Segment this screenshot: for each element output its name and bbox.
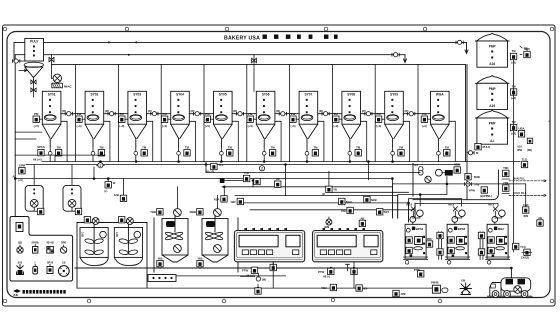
level switch left of SY05 bbox=[204, 112, 210, 128]
svg-text:SPB: SPB bbox=[61, 241, 66, 245]
storage silo 2 bbox=[475, 76, 509, 110]
right mid circle lower bbox=[425, 176, 431, 182]
silo 2 instrument bbox=[510, 85, 516, 101]
svg-text:(R): (R) bbox=[191, 109, 195, 113]
svg-text:SY03: SY03 bbox=[133, 93, 141, 97]
wire side drop SY06 bbox=[275, 121, 281, 161]
junction dot 420.2,194.6 bbox=[419, 194, 421, 196]
bottom instrument PTW1 bbox=[242, 267, 258, 277]
wire instrument to bin SY09 bbox=[382, 118, 385, 120]
discharge instrument below SY08 bbox=[355, 145, 361, 156]
mixer room box CD risers bbox=[154, 218, 238, 272]
instrument TLD right bbox=[521, 157, 527, 167]
blower motor bbox=[52, 83, 73, 88]
svg-text:N24: N24 bbox=[384, 210, 390, 214]
svg-text:YPW: YPW bbox=[469, 189, 476, 193]
valve on L1 right end bbox=[456, 40, 463, 44]
junction dot 307,161.5 bbox=[306, 161, 308, 163]
aerator fan symbol bbox=[460, 279, 471, 295]
svg-text:QB: QB bbox=[18, 241, 22, 245]
svg-text:SPAS: SPAS bbox=[37, 145, 45, 149]
instrument CnD right column bbox=[523, 203, 529, 218]
svg-text:A16: A16 bbox=[489, 62, 495, 66]
rotary valve after SY02 bbox=[105, 109, 115, 116]
svg-text:MBB: MBB bbox=[190, 210, 196, 214]
title block 3 bbox=[286, 35, 291, 39]
middle cluster: instrument XB bbox=[275, 177, 281, 188]
wire outlet down SY08 bbox=[349, 146, 351, 162]
svg-text:1AB: 1AB bbox=[81, 232, 84, 237]
day tank 1B08 instrument bbox=[75, 208, 81, 214]
divider wire after SY07 bbox=[331, 64, 333, 161]
wire bottom bus lower bbox=[77, 287, 433, 289]
junction dot 408.5,202.9 bbox=[408, 202, 410, 204]
wire outlet down SY04 bbox=[178, 146, 180, 162]
svg-text:HB.8: HB.8 bbox=[488, 203, 494, 207]
svg-text:MAN FILL: MAN FILL bbox=[513, 177, 526, 181]
svg-text:NGV: NGV bbox=[346, 200, 352, 204]
bottom instrument BN bbox=[356, 285, 367, 291]
svg-text:(+): (+) bbox=[104, 189, 107, 193]
wire bus y186 bbox=[222, 186, 392, 188]
svg-text:(M): (M) bbox=[262, 277, 266, 281]
svg-text:TM: TM bbox=[142, 145, 147, 149]
wire outlet down SY05 bbox=[220, 146, 222, 162]
wire instrument to bin SY08 bbox=[339, 118, 342, 120]
title block 5 bbox=[309, 35, 313, 39]
svg-text:(+0): (+0) bbox=[18, 178, 23, 182]
rotary valve after SY04 bbox=[191, 109, 201, 116]
svg-text:(+0): (+0) bbox=[34, 124, 39, 128]
bottom wire jog bbox=[240, 274, 258, 277]
wire riser x368 bbox=[367, 162, 369, 180]
feeder side arrow bbox=[19, 69, 27, 71]
svg-text:(2)(PPBL): (2)(PPBL) bbox=[480, 194, 492, 198]
svg-text:SP20: SP20 bbox=[47, 261, 54, 265]
junction dot 108.2,178.6 bbox=[107, 178, 109, 180]
UBA cluster square b bbox=[527, 138, 532, 143]
storage silo 3 bbox=[475, 110, 509, 144]
svg-text:Z2R: Z2R bbox=[503, 181, 508, 185]
svg-text:PW4B: PW4B bbox=[431, 281, 439, 285]
day tank risers bbox=[34, 165, 72, 186]
panel row2 hoist symbol bbox=[17, 261, 24, 275]
level switch left of SY06 bbox=[247, 112, 253, 128]
wire riser x253 bbox=[252, 180, 254, 187]
svg-text:(+0): (+0) bbox=[162, 124, 167, 128]
svg-text:PTW: PTW bbox=[242, 269, 249, 273]
silo 3 instrument bbox=[510, 120, 516, 136]
junction dot 446.9,183.9 bbox=[446, 183, 448, 185]
discharge instrument below WGA bbox=[444, 145, 450, 156]
divider wire after SY08 bbox=[374, 64, 376, 161]
screw top a bbox=[125, 27, 129, 31]
operator control panel bbox=[10, 217, 73, 282]
wire instrument to bin SY02 bbox=[82, 118, 85, 120]
right mid instrument XBB bbox=[454, 163, 460, 174]
svg-text:SY02: SY02 bbox=[90, 93, 98, 97]
junction dot 392.6,161.5 bbox=[392, 161, 394, 163]
svg-text:PM: PM bbox=[205, 112, 210, 116]
screw top-right bbox=[550, 27, 554, 31]
svg-text:T6D: T6D bbox=[503, 166, 508, 170]
screw bottom a bbox=[87, 299, 91, 303]
wire outlet down WGA bbox=[437, 146, 439, 162]
svg-text:PM: PM bbox=[376, 112, 381, 116]
svg-text:M/AC: M/AC bbox=[64, 85, 72, 89]
wire bin SY07 to next bin bbox=[318, 113, 342, 115]
wire box right edge bbox=[466, 64, 468, 199]
discharge instrument below SY03 bbox=[141, 145, 147, 156]
rotary valve after SY01 bbox=[62, 109, 72, 116]
divider wire after SY06 bbox=[289, 64, 291, 161]
feeder discharge ellipse bbox=[24, 62, 43, 67]
weighing indicator panel 1 bbox=[234, 228, 304, 262]
svg-text:AB: AB bbox=[360, 216, 364, 220]
wire side drop SY07 bbox=[318, 121, 324, 161]
dough mixer cone MXD bbox=[202, 255, 228, 262]
junction dot L1 b bbox=[135, 41, 137, 43]
day tank 1B08 bbox=[63, 185, 81, 211]
discharge instrument below SY06 bbox=[269, 145, 275, 156]
discharge valve below SY05 bbox=[220, 151, 224, 155]
bottom instrument 4PB bbox=[393, 290, 406, 296]
svg-text:(R): (R) bbox=[319, 109, 323, 113]
svg-text:YBS: YBS bbox=[157, 257, 163, 261]
wire instrument to bin SY04 bbox=[168, 118, 171, 120]
left extra instrument SPAS bbox=[33, 145, 45, 161]
middle cluster: instrument YB bbox=[322, 186, 337, 196]
junction dot 221.4,161.5 bbox=[221, 161, 223, 163]
svg-text:7H9: 7H9 bbox=[474, 183, 480, 187]
svg-text:4M9: 4M9 bbox=[324, 225, 330, 229]
right mid pump block bbox=[442, 170, 452, 176]
svg-text:PM: PM bbox=[120, 112, 125, 116]
panel row1 lamp 4 bbox=[60, 241, 66, 254]
wire side drop WGA bbox=[449, 121, 455, 161]
packing station BPS3 inlet valves bbox=[406, 203, 423, 225]
wire box top header bbox=[52, 64, 466, 161]
panel row1 grid switch bbox=[46, 241, 53, 254]
dough mixer discharge instrument MXD bbox=[197, 257, 203, 267]
svg-text:BULK FILL: BULK FILL bbox=[513, 191, 527, 195]
svg-text:YBF: YBF bbox=[230, 200, 236, 204]
wire instrument to bin SY06 bbox=[253, 118, 256, 120]
svg-text:(+0): (+0) bbox=[376, 124, 381, 128]
svg-text:TLD: TLD bbox=[522, 157, 527, 161]
instrument YPW bbox=[469, 187, 492, 198]
svg-text:TM: TM bbox=[99, 145, 104, 149]
svg-text:LB: LB bbox=[62, 261, 66, 265]
bottom instrument right PTW bbox=[414, 268, 424, 277]
svg-text:(+0): (+0) bbox=[119, 124, 124, 128]
svg-text:PMP: PMP bbox=[489, 87, 497, 91]
discharge valve below SY08 bbox=[348, 151, 352, 155]
panel switch top bbox=[16, 223, 23, 232]
screw top-left bbox=[3, 27, 7, 31]
svg-text:1AB: 1AB bbox=[115, 232, 118, 237]
feeder inlet valve left bbox=[13, 59, 25, 63]
svg-text:C#2(2): C#2(2) bbox=[521, 256, 529, 260]
svg-text:B B: B B bbox=[18, 261, 23, 265]
svg-text:WGA: WGA bbox=[436, 93, 444, 97]
title block 6 bbox=[324, 35, 328, 39]
wire bus y195 bbox=[235, 194, 398, 196]
rotary valve after SY07 bbox=[319, 109, 329, 116]
svg-text:PM: PM bbox=[334, 112, 339, 116]
divider wire after SY01 bbox=[75, 64, 77, 161]
pump unit bbox=[431, 281, 448, 294]
wire bin SY01 to next bin bbox=[61, 113, 85, 115]
level switch left of SY04 bbox=[161, 112, 167, 128]
svg-text:(2): (2) bbox=[322, 192, 325, 196]
wire outlet down SY01 bbox=[49, 146, 51, 162]
svg-text:(+0): (+0) bbox=[290, 124, 295, 128]
svg-text:PM: PM bbox=[77, 112, 82, 116]
dough mixer discharge instrument MXC bbox=[157, 257, 163, 267]
packing station BPS8 bbox=[446, 224, 470, 259]
svg-text:PM: PM bbox=[248, 112, 253, 116]
junction dot 333.4,288.1 bbox=[333, 287, 335, 289]
mixer motor MXA bbox=[92, 218, 99, 225]
discharge valve below SY02 bbox=[91, 151, 95, 155]
bottom instrument YB dark bbox=[351, 268, 357, 274]
junction dot 206,164.5 bbox=[205, 164, 207, 166]
wire instrument to bin SY01 bbox=[39, 118, 42, 120]
svg-text:(R): (R) bbox=[405, 109, 409, 113]
svg-text:PMP: PMP bbox=[489, 45, 497, 49]
svg-text:4PB: 4PB bbox=[517, 148, 522, 152]
storage silo 1 bbox=[475, 33, 509, 67]
packing station BPS3 bbox=[404, 224, 428, 259]
instrument TLL bbox=[206, 163, 225, 173]
svg-text:SPM: SPM bbox=[19, 163, 26, 167]
svg-text:TM: TM bbox=[185, 145, 190, 149]
wire riser x392 bbox=[391, 180, 393, 218]
svg-text:SY07: SY07 bbox=[304, 93, 312, 97]
bottom T symbol bbox=[346, 264, 350, 270]
svg-text:SY06: SY06 bbox=[262, 93, 270, 97]
divider wire after SY04 bbox=[203, 64, 205, 161]
right mid valve 7H9 bbox=[464, 182, 479, 187]
junction dot L2 bbox=[128, 54, 130, 56]
discharge valve below SY07 bbox=[305, 151, 309, 155]
level switch left of SY07 bbox=[290, 112, 296, 128]
wire bin SY09 to next bin bbox=[403, 113, 430, 115]
middle cluster: instrument NGV bbox=[339, 198, 352, 204]
discharge instrument below SY04 bbox=[184, 145, 190, 156]
bottom instrument PTW2 bbox=[318, 268, 334, 278]
junction dot 285.5,164.5 bbox=[285, 164, 287, 166]
wire riser x206 bbox=[205, 162, 207, 173]
symbol 2-circle mid bbox=[259, 166, 264, 171]
day tank 1A08 bbox=[25, 185, 43, 211]
screw bottom c bbox=[331, 298, 335, 302]
svg-text:YBA: YBA bbox=[321, 286, 327, 290]
svg-text:(R): (R) bbox=[233, 109, 237, 113]
svg-text:(R): (R) bbox=[362, 109, 366, 113]
wire staircase c bbox=[409, 199, 462, 222]
rotary valve after SY06 bbox=[276, 109, 286, 116]
wire panel2 drop bbox=[353, 262, 355, 288]
svg-text:4PB: 4PB bbox=[523, 214, 528, 218]
svg-text:SPBB: SPBB bbox=[31, 241, 38, 245]
divider wire after SY03 bbox=[160, 64, 162, 161]
discharge valve below SY04 bbox=[177, 151, 181, 155]
wire bus y172 bbox=[206, 171, 420, 173]
wire bin SY06 to next bin bbox=[275, 113, 299, 115]
wire silo column bbox=[513, 60, 515, 252]
valve on L2 right end bbox=[392, 53, 399, 57]
hopper bin WGA bbox=[431, 91, 450, 146]
wire bin SY04 to next bin bbox=[189, 113, 213, 115]
svg-text:H8 (+0): H8 (+0) bbox=[33, 158, 42, 162]
mixer tank MXB bbox=[114, 225, 142, 266]
rotary valve after SY09 bbox=[405, 109, 415, 116]
junction dot 94,178.6 bbox=[93, 178, 95, 180]
svg-text:AB: AB bbox=[538, 216, 542, 220]
weighing indicator panel 2 bbox=[313, 228, 383, 262]
blower feed valve bbox=[49, 55, 54, 65]
packing station BPS8 inlet valves bbox=[448, 203, 465, 225]
screw bottom-right bbox=[550, 299, 554, 303]
instrument C2 right column bbox=[521, 249, 532, 259]
title block 2 bbox=[274, 35, 278, 39]
title block 7 bbox=[334, 35, 338, 39]
mixer room box AB bbox=[77, 223, 147, 289]
middle cluster: instrument N24 bbox=[377, 209, 390, 215]
svg-text:4PB: 4PB bbox=[401, 292, 406, 296]
divider wire after SY02 bbox=[117, 64, 119, 161]
symbol 2-circle left bbox=[96, 163, 104, 168]
discharge valve below SY06 bbox=[262, 151, 266, 155]
wire L2 end corner bbox=[399, 55, 406, 63]
level switch left of SY08 bbox=[333, 112, 339, 128]
feeder lower valve 2 bbox=[31, 88, 36, 98]
wire silo1 to instr2 bbox=[520, 46, 527, 55]
junction dot 368.4,161.5 bbox=[368, 161, 370, 163]
wire bin SY02 to next bin bbox=[104, 113, 128, 115]
wire bus y139 bbox=[15, 138, 36, 140]
wire instrument to bin SY03 bbox=[125, 118, 128, 120]
svg-text:TLL: TLL bbox=[219, 163, 225, 167]
wire riser x397 bbox=[397, 195, 399, 218]
inter station column 2 bbox=[478, 232, 484, 260]
panel row2 big dial bbox=[58, 261, 69, 277]
svg-text:YBB: YBB bbox=[150, 210, 156, 214]
junction dot L1 bbox=[108, 41, 110, 43]
wire side drop SY03 bbox=[147, 121, 153, 161]
PULE instrument bbox=[475, 144, 490, 150]
instrument W mid-left bbox=[104, 181, 116, 193]
packing station BPS3 bottom circle bbox=[405, 261, 409, 265]
wire side drop SY08 bbox=[361, 121, 367, 161]
packing station BPS8 bottom circle bbox=[447, 261, 451, 265]
middle cluster: instrument PW2 bbox=[254, 178, 260, 184]
svg-text:GA: GA bbox=[414, 163, 418, 167]
packing station MB3 bottom circle bbox=[487, 261, 491, 265]
packing station MB3 bbox=[486, 224, 510, 259]
title block 1 bbox=[263, 35, 267, 39]
svg-text:TM: TM bbox=[271, 145, 276, 149]
junction dot 178.6,161.5 bbox=[178, 161, 180, 163]
discharge instrument below SY05 bbox=[227, 145, 233, 156]
discharge valve below SY09 bbox=[391, 151, 395, 155]
svg-text:A16: A16 bbox=[489, 104, 495, 108]
junction dot 273.2,268 bbox=[272, 267, 274, 269]
junction dot 253,180.5 bbox=[252, 180, 254, 182]
dough mixer instrument MBB bbox=[190, 209, 203, 215]
right mid instrument M2B bbox=[465, 174, 480, 180]
inter station column 1 bbox=[437, 232, 443, 260]
svg-text:(+0): (+0) bbox=[205, 124, 210, 128]
svg-text:(2B): (2B) bbox=[527, 148, 532, 152]
discharge instrument below SY09 bbox=[398, 145, 404, 156]
wire bus y192 bbox=[331, 191, 409, 193]
wire outlet down SY07 bbox=[306, 146, 308, 162]
svg-text:XB: XB bbox=[276, 177, 280, 181]
wire bus y164 bbox=[26, 164, 460, 166]
screw top c bbox=[324, 27, 328, 31]
svg-text:(+0): (+0) bbox=[248, 124, 253, 128]
instrument AB right column bbox=[537, 216, 543, 226]
svg-text:BPS3: BPS3 bbox=[416, 227, 424, 231]
svg-text:TM: TM bbox=[313, 145, 318, 149]
junction dot 359.1,288.1 bbox=[358, 287, 360, 289]
svg-text:UBA: UBA bbox=[518, 127, 524, 131]
divider wire after SY05 bbox=[246, 64, 248, 161]
svg-text:PM: PM bbox=[422, 112, 427, 116]
wire side drop SY05 bbox=[232, 121, 238, 161]
svg-text:(+0): (+0) bbox=[422, 124, 427, 128]
dough mixer motor MXC bbox=[174, 187, 182, 217]
fill line valve SY06 bbox=[252, 55, 257, 92]
svg-text:AC: AC bbox=[13, 175, 17, 179]
rotary valve after SY03 bbox=[148, 109, 158, 116]
wire bus y178 bbox=[15, 178, 392, 180]
mixer tank MXA bbox=[80, 225, 108, 266]
wire bin SY08 to next bin bbox=[361, 113, 385, 115]
svg-text:SY05: SY05 bbox=[219, 93, 227, 97]
wire bus y132 bbox=[15, 131, 42, 133]
discharge instrument below SY02 bbox=[98, 145, 104, 156]
inner faceplate border bbox=[7, 32, 550, 298]
dough mixer MXD bbox=[202, 217, 228, 256]
wire bottom bus main bbox=[75, 268, 511, 279]
svg-text:SY04: SY04 bbox=[176, 93, 184, 97]
wire riser x55 bbox=[54, 155, 56, 161]
wire top bus L1 bbox=[14, 42, 457, 61]
junction dot 354,268 bbox=[353, 267, 355, 269]
hopper bin SY08 bbox=[342, 91, 361, 146]
discharge instrument below SY01 bbox=[55, 145, 61, 156]
svg-text:YB: YB bbox=[333, 188, 337, 192]
svg-text:M2B: M2B bbox=[474, 175, 480, 179]
wire instrument to bin SY05 bbox=[211, 118, 214, 120]
maker logo mark bbox=[14, 289, 21, 293]
svg-text:H8 (+0): H8 (+0) bbox=[206, 170, 215, 174]
svg-text:HB.8: HB.8 bbox=[448, 203, 454, 207]
svg-text:SY09: SY09 bbox=[390, 93, 398, 97]
hopper bin SY06 bbox=[256, 91, 275, 146]
wire riser YB bbox=[328, 171, 330, 186]
svg-text:XW: XW bbox=[461, 279, 466, 283]
wire outlet down SY03 bbox=[135, 146, 137, 162]
middle cluster: instrument AB bbox=[359, 216, 365, 226]
svg-text:PULE: PULE bbox=[483, 145, 491, 149]
svg-text:MB3: MB3 bbox=[498, 227, 504, 231]
svg-text:PTW: PTW bbox=[414, 268, 420, 272]
